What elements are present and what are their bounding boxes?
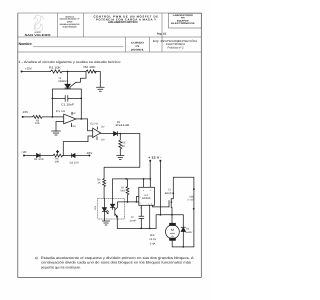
resistor R1 bbox=[51, 70, 62, 73]
svg-text:NE555: NE555 bbox=[142, 197, 151, 200]
junction C2 / H2 bbox=[140, 228, 142, 230]
svg-text:12V: 12V bbox=[171, 235, 175, 238]
wire H1 bbox=[156, 214, 183, 216]
diode D3 1N4148 bbox=[114, 132, 118, 136]
wire to op-amp bbox=[43, 116, 64, 118]
junction IC4 pin4 stub / bus bbox=[149, 178, 151, 180]
svg-text:R1 10K: R1 10K bbox=[49, 65, 61, 69]
svg-text:AISLAMIENTO ÓPTICO: AISLAMIENTO ÓPTICO bbox=[108, 20, 138, 24]
svg-text:M: M bbox=[171, 228, 174, 232]
svg-text:Nombre: Nombre bbox=[19, 42, 32, 46]
capacitor C1 bbox=[52, 96, 81, 102]
wire left vertical to summing node bbox=[51, 98, 53, 117]
wire + input to ground bbox=[56, 122, 64, 132]
wire IC4 top pins bbox=[144, 179, 151, 187]
node -15V terminal (chain) bbox=[88, 155, 90, 157]
svg-text:5K6: 5K6 bbox=[120, 190, 125, 193]
opto photodiode bbox=[110, 204, 114, 207]
diode D4 freewheel bbox=[181, 215, 185, 247]
junction R7 bottom / collector line bbox=[127, 201, 129, 203]
wire IC4 pin3 gate bbox=[153, 205, 170, 207]
svg-text:(+12V): (+12V) bbox=[188, 199, 195, 202]
curso cell bbox=[131, 41, 145, 51]
svg-text:+ 12 V -: + 12 V - bbox=[148, 155, 162, 159]
wire IC4 pin1 down bbox=[149, 205, 151, 228]
op-amp IC2 741 bbox=[93, 128, 101, 137]
wire emitter/gnd line H2 bbox=[117, 215, 156, 229]
svg-text:1.- Analiza el circuito siguie: 1.- Analiza el circuito siguiente y real… bbox=[18, 60, 121, 64]
wire bus left down to photodiode bbox=[112, 179, 114, 205]
svg-text:-15V: -15V bbox=[86, 151, 93, 155]
svg-text:15V: 15V bbox=[71, 112, 76, 115]
svg-text:pequeños que los constituyen.: pequeños que los constituyen. bbox=[41, 265, 81, 269]
wire IC4 pin stub 2-6 bbox=[136, 197, 138, 202]
node +12V negative terminal bbox=[159, 160, 161, 162]
wire drain to rail bbox=[173, 177, 194, 247]
svg-text:ELECTRÓNICA: ELECTRÓNICA bbox=[166, 42, 185, 46]
wire top rail bbox=[22, 71, 51, 73]
junction PUT anode / rail bbox=[67, 71, 69, 73]
junction IC4 pin8 stub / bus bbox=[143, 178, 145, 180]
svg-text:Mot.: Mot. bbox=[150, 234, 155, 237]
motor M bbox=[166, 225, 180, 239]
svg-text:DESARROLLO DE PRODUCTOS: DESARROLLO DE PRODUCTOS bbox=[60, 23, 80, 26]
wire bus 12V bbox=[113, 178, 151, 180]
wire down to opto branch bbox=[104, 134, 140, 179]
junction pin2-6 tap bbox=[136, 201, 138, 203]
wire chain right to -15V bbox=[75, 155, 89, 157]
svg-text:15V: 15V bbox=[101, 139, 105, 142]
svg-text:ELECTRÓNICOS: ELECTRÓNICOS bbox=[63, 26, 78, 29]
resistor R7 bbox=[126, 179, 129, 202]
junction C1 left / top wire bbox=[52, 98, 54, 100]
svg-text:EQUIPOS: EQUIPOS bbox=[177, 19, 189, 22]
junction R7 top / 12V bus bbox=[125, 178, 127, 180]
svg-text:6: 6 bbox=[140, 202, 141, 205]
svg-text:1K: 1K bbox=[122, 145, 125, 148]
node +12V positive terminal bbox=[149, 160, 151, 162]
resistor R3 bbox=[33, 115, 43, 118]
resistor R2 bbox=[86, 70, 96, 73]
ground R5 bbox=[117, 156, 124, 160]
junction -12V drop / H1 bbox=[160, 214, 162, 216]
page frame bbox=[18, 13, 202, 278]
svg-text:2N6027: 2N6027 bbox=[58, 80, 69, 83]
wire after D3 bbox=[118, 133, 140, 135]
svg-text:IC3: IC3 bbox=[94, 205, 97, 209]
svg-text:CPES: CPES bbox=[67, 20, 73, 23]
logo San Valero bbox=[25, 15, 52, 37]
ground IC1 bbox=[52, 131, 61, 135]
motor dc mark bbox=[170, 232, 175, 234]
schematic labels bbox=[21, 65, 194, 246]
wire gate staircase bbox=[70, 72, 86, 87]
svg-text:3: 3 bbox=[151, 202, 152, 205]
svg-text:-: - bbox=[65, 116, 66, 119]
node +15V terminal (chain) bbox=[23, 155, 25, 157]
optocoupler IC3 dashed box bbox=[98, 198, 125, 219]
svg-text:10K: 10K bbox=[35, 122, 40, 125]
wire chain left bbox=[24, 155, 37, 157]
opto LED arrows bbox=[106, 210, 109, 214]
svg-text:ELECTRÓNICOS: ELECTRÓNICOS bbox=[171, 22, 195, 25]
svg-text:2000/1: 2000/1 bbox=[131, 48, 145, 51]
op-amp IC1 741 bbox=[64, 114, 76, 124]
wire bbox=[62, 71, 86, 73]
zener D2 15V bbox=[72, 154, 76, 158]
wire right vertical to output bbox=[80, 98, 82, 119]
junction Vdd rail upper bbox=[193, 208, 195, 210]
svg-text:Vdd: Vdd bbox=[189, 195, 194, 198]
svg-text:IC2 741: IC2 741 bbox=[90, 123, 98, 126]
svg-text:-15V: -15V bbox=[22, 110, 28, 114]
wire IC4 pin5 C2 bbox=[140, 205, 142, 216]
opto phototransistor bbox=[114, 208, 116, 216]
svg-text:+15V: +15V bbox=[21, 150, 26, 154]
junction C1 right / top wire bbox=[80, 98, 82, 100]
svg-text:3-4A: 3-4A bbox=[150, 242, 156, 245]
svg-text:-: - bbox=[93, 130, 94, 133]
svg-text:SAN VALERO: SAN VALERO bbox=[25, 33, 52, 37]
wire IC2 output bbox=[101, 133, 114, 135]
eq cell bbox=[153, 39, 197, 50]
resistor R6 bbox=[103, 178, 106, 198]
svg-text:D4: D4 bbox=[186, 228, 190, 231]
header table bbox=[18, 13, 202, 52]
svg-text:continuación divide cada uno d: continuación divide cada uno de esos dos… bbox=[41, 261, 191, 265]
svg-text:4: 4 bbox=[150, 189, 151, 192]
svg-text:1K: 1K bbox=[98, 181, 101, 184]
ground below opto LED bbox=[102, 219, 109, 225]
svg-text:D1 3V9: D1 3V9 bbox=[34, 158, 44, 161]
zener D1 3V9 bbox=[37, 154, 41, 158]
junction D4 bottom / H3 bbox=[182, 246, 184, 248]
junction IC1 output / feedback bbox=[80, 118, 82, 120]
paragraph a) bbox=[35, 256, 195, 269]
wire feedback top bbox=[52, 89, 81, 98]
ground top right bbox=[96, 87, 104, 91]
header laboratorio cell bbox=[169, 13, 202, 28]
header title cell bbox=[94, 15, 159, 25]
svg-text:1N4007: 1N4007 bbox=[185, 231, 194, 234]
junction T2 channel tap bbox=[171, 201, 173, 203]
svg-text:15V: 15V bbox=[101, 126, 105, 129]
transistor T1 PUT bbox=[67, 72, 69, 84]
wire +12V right terminal down bbox=[159, 161, 161, 215]
capacitor C2 bbox=[139, 216, 144, 228]
wire IC1 output bbox=[76, 119, 93, 131]
junction IC4 pin1 / H2 bbox=[149, 228, 151, 230]
junction Vdd rail / label bbox=[193, 188, 195, 190]
wire chain bbox=[63, 155, 72, 157]
svg-text:10nF: 10nF bbox=[129, 219, 137, 222]
svg-text:IC1 741: IC1 741 bbox=[56, 110, 66, 113]
junction source-motor node H1 bbox=[171, 214, 173, 216]
svg-text:D2 15V: D2 15V bbox=[70, 161, 80, 164]
header centro cell text bbox=[60, 15, 80, 28]
svg-text:Nº5: Nº5 bbox=[181, 17, 185, 20]
svg-text:a): a) bbox=[35, 256, 38, 260]
wire +12V left terminal down bbox=[149, 161, 151, 179]
potentiometer R4 bbox=[53, 154, 63, 157]
wire bottom H3 bbox=[172, 246, 194, 248]
junction D3 cathode / R5 bbox=[119, 133, 121, 135]
svg-text:12-6V: 12-6V bbox=[149, 238, 156, 241]
IC4 box bbox=[139, 187, 155, 205]
svg-text:2: 2 bbox=[140, 196, 141, 199]
svg-text:LABORATORIO: LABORATORIO bbox=[173, 14, 193, 17]
svg-text:1: 1 bbox=[148, 202, 149, 205]
svg-text:10K: 10K bbox=[55, 160, 60, 163]
svg-text:C1 10nF: C1 10nF bbox=[61, 102, 74, 106]
svg-text:+15V: +15V bbox=[25, 67, 32, 71]
svg-text:BUZ11: BUZ11 bbox=[165, 192, 175, 195]
svg-text:Práctica nº 2: Práctica nº 2 bbox=[168, 47, 185, 50]
svg-text:EDUCACIÓN SECUNDARIA Y FP: EDUCACIÓN SECUNDARIA Y FP bbox=[60, 17, 80, 20]
transistor T2 MOSFET BUZ11 bbox=[169, 199, 173, 215]
svg-text:15V: 15V bbox=[71, 125, 76, 128]
opto LED bbox=[102, 208, 106, 212]
node -15V left bbox=[23, 116, 33, 118]
svg-text:R2 10K: R2 10K bbox=[84, 65, 96, 69]
node +15V terminal bbox=[21, 71, 23, 73]
svg-text:Pag. 1/2: Pag. 1/2 bbox=[157, 32, 167, 35]
svg-text:Estudia atentamente el esquema: Estudia atentamente el esquema y divídel… bbox=[41, 256, 194, 260]
junction summing node A bbox=[52, 116, 54, 118]
svg-text:1N4148: 1N4148 bbox=[115, 124, 130, 127]
svg-text:8: 8 bbox=[143, 189, 144, 192]
node -15V terminal (R3) bbox=[22, 116, 24, 118]
wire bbox=[94, 72, 100, 88]
svg-text:5: 5 bbox=[140, 206, 141, 209]
wire collector line to IC4 bbox=[117, 201, 138, 203]
resistor R5 bbox=[119, 134, 122, 156]
svg-text:EQ: INSTRUMENTACIÓN: EQ: INSTRUMENTACIÓN bbox=[153, 39, 197, 43]
